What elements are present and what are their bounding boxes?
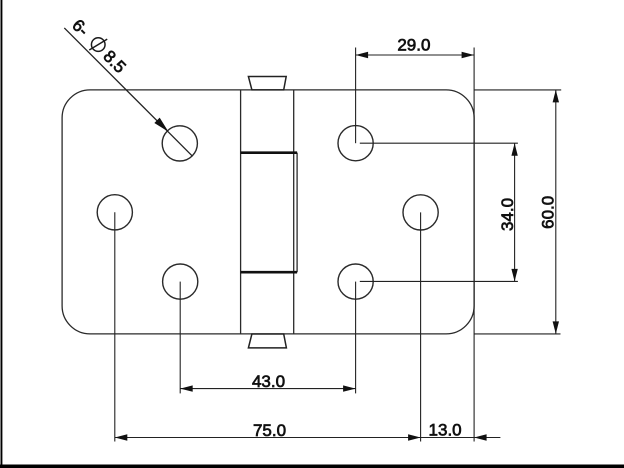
- leader line for hole callout: [64, 28, 167, 131]
- dim 60.0 arrow bottom: [553, 321, 559, 334]
- dim 43.0 arrow left: [180, 385, 193, 391]
- svg-text:60.0: 60.0: [539, 196, 558, 229]
- dim 43.0 extension line right: [355, 282, 357, 394]
- svg-text:75.0: 75.0: [253, 421, 286, 440]
- dim 29.0 arrow right: [462, 52, 475, 58]
- border frame left line: [1, 0, 3, 468]
- pin head bottom trapezoid: [248, 334, 286, 348]
- middle knuckle right edge: [296, 153, 298, 273]
- leader text 6- dia 8.5: [68, 15, 130, 77]
- hole mid-left: [97, 195, 132, 230]
- knuckle separator top: [241, 151, 298, 154]
- hole bottom-right: [338, 264, 373, 299]
- dim 13.0 dimension line: [421, 437, 501, 439]
- dim 34.0 extension line top: [360, 142, 518, 144]
- pin head top trapezoid: [248, 77, 286, 90]
- plate top edge extension line to 60.0 dim: [474, 89, 561, 91]
- plate bottom edge extension line to 60.0 dim: [474, 333, 560, 335]
- border frame bottom line: [0, 465, 624, 468]
- svg-text:43.0: 43.0: [252, 372, 285, 391]
- dim 43.0 dimension line: [180, 388, 355, 390]
- knuckle separator bottom: [241, 271, 298, 274]
- dim 75.0 dimension line: [115, 437, 421, 439]
- hole mid-right: [403, 195, 438, 230]
- dim 34.0 extension line bottom: [360, 280, 518, 282]
- dim 75.0 arrow left: [115, 434, 128, 440]
- hole top-right: [338, 126, 373, 161]
- dim 13.0 arrow right: [474, 434, 487, 440]
- leader arrowhead: [155, 118, 167, 130]
- hinge plate outline: [62, 90, 474, 334]
- hinge barrel left edge: [240, 90, 242, 334]
- dim 29.0 extension line left: [355, 48, 357, 144]
- dim 60.0 arrow top: [553, 90, 559, 103]
- svg-text:29.0: 29.0: [397, 36, 430, 55]
- dim 75.0 extension line right: [420, 212, 422, 441]
- dim 29.0 arrow left: [356, 52, 369, 58]
- dim 34.0 dimension line: [514, 143, 516, 281]
- dim 75.0 arrow right (shared 13.0 left arrow): [408, 434, 421, 440]
- dim 34.0 arrow top: [511, 143, 517, 156]
- dim 60.0 dimension line: [555, 90, 557, 334]
- dim 29.0 / 13.0 shared extension line at plate right edge: [473, 48, 475, 442]
- dim 34.0 arrow bottom: [511, 269, 517, 282]
- svg-text:13.0: 13.0: [429, 421, 462, 440]
- dim 29.0 dimension line: [356, 54, 475, 56]
- dim 75.0 extension line left: [114, 212, 116, 441]
- hole bottom-left: [163, 264, 198, 299]
- dim 43.0 arrow right: [343, 385, 356, 391]
- dim 43.0 extension line left: [179, 282, 181, 394]
- hole top-left: [162, 126, 197, 161]
- hinge barrel right edge: [293, 90, 295, 334]
- leader chord through hole: [167, 131, 192, 156]
- svg-text:34.0: 34.0: [498, 198, 517, 231]
